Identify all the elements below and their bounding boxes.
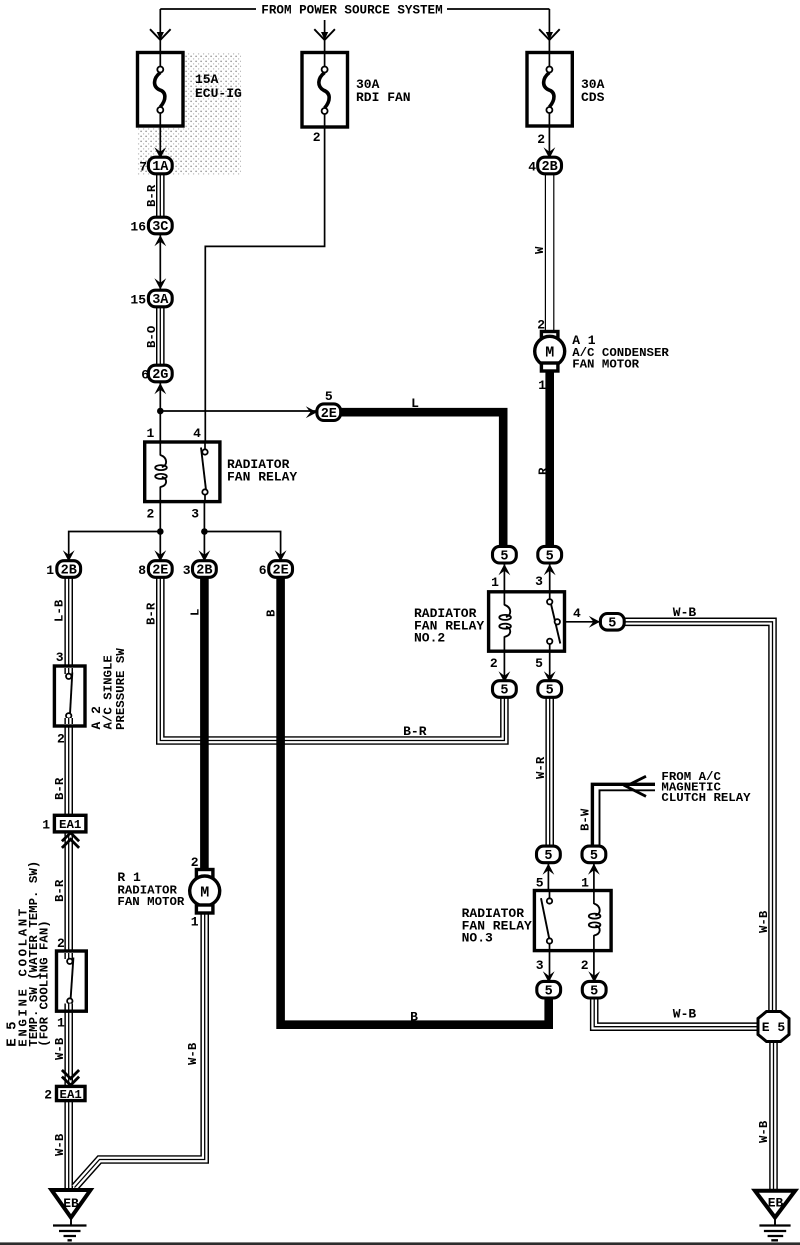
node: junction at 2G branch (157, 408, 164, 415)
wire: power source bus top (160, 8, 549, 10)
svg-text:FAN RELAY: FAN RELAY (227, 470, 297, 485)
svg-text:(FOR COOLING FAN): (FOR COOLING FAN) (38, 920, 52, 1046)
svg-text:B-R: B-R (53, 777, 67, 800)
svg-text:2E: 2E (321, 407, 337, 422)
svg-text:B-R: B-R (403, 724, 427, 739)
arrow into 2E pin6 (275, 550, 287, 561)
wire: RDI fuse to relay pin 4 (205, 127, 324, 443)
arrow into 5 oval (pin4) (589, 616, 600, 628)
svg-text:2: 2 (57, 936, 65, 951)
svg-text:8: 8 (138, 563, 146, 578)
thick wire B: 2E pin6 down and right to relay3 pin3 (281, 577, 549, 1025)
svg-text:2: 2 (191, 855, 199, 870)
wire B-R: EA1 to coolant temp switch (64, 831, 73, 953)
arrow into connector 2B pin4 (544, 147, 556, 158)
arrow into fuse 15A (150, 29, 171, 40)
svg-text:B-R: B-R (145, 184, 159, 207)
svg-text:1A: 1A (152, 160, 169, 175)
wire W-B: radiator fan motor to ground EB (75, 912, 205, 1188)
wire: drop to fuse 30A CDS (548, 9, 550, 53)
connector 2B pin 3 (193, 561, 217, 578)
wire: relay3 pins 3,2 to 5 ovals (550, 950, 594, 983)
svg-text:1: 1 (538, 378, 546, 393)
svg-text:5: 5 (325, 389, 333, 404)
wire: 5 ovals to relay2 pins 1,3 (504, 562, 549, 593)
arrows up into 5 ovals (499, 564, 511, 575)
motor R1 radiator fan (196, 870, 213, 878)
svg-text:W-R: W-R (534, 756, 548, 779)
shaded block region around ECU-IG fuse (137, 52, 241, 175)
svg-text:2: 2 (490, 656, 498, 671)
connector 5 (relay2 pin5) (538, 681, 562, 698)
connector 2B pin 1 (57, 561, 81, 578)
double chevron down into EA1 pin2 (62, 1070, 79, 1085)
svg-text:CLUTCH RELAY: CLUTCH RELAY (661, 791, 751, 805)
wire B-R: 1A to 3C (156, 173, 165, 218)
switch A2 A/C single pressure (54, 666, 85, 726)
svg-text:M: M (200, 884, 209, 901)
svg-text:ECU-IG: ECU-IG (195, 86, 242, 101)
wire: relay1 pin2 to branch node (69, 500, 161, 562)
svg-text:16: 16 (130, 220, 146, 235)
svg-text:5: 5 (546, 549, 554, 564)
wire: connector 3C to 3A (159, 234, 161, 290)
svg-text:2E: 2E (272, 564, 288, 579)
connector 5 (relay2 pin2) (493, 681, 517, 698)
relay: RADIATOR FAN RELAY (145, 442, 220, 502)
svg-text:NO.3: NO.3 (462, 931, 493, 946)
arrow up into 3C (154, 235, 166, 246)
connector EA1 pin 2 (57, 1086, 86, 1100)
svg-text:M: M (545, 345, 554, 362)
arrow up into 2G (154, 383, 166, 394)
wire B-O: 3A to 2G (156, 306, 165, 366)
wire: connector 2G to relay pin 1 (159, 382, 161, 443)
svg-text:B: B (410, 1010, 418, 1025)
arrow into 2E pin8 (154, 550, 166, 561)
svg-text:3: 3 (536, 958, 544, 973)
arrow down into 3A (154, 278, 166, 289)
node: junction relay1 pin3 (201, 528, 208, 535)
svg-text:PRESSURE SW: PRESSURE SW (114, 648, 128, 730)
svg-text:5: 5 (590, 849, 598, 864)
arrow into fuse 30A CDS (539, 29, 560, 40)
svg-text:FROM POWER SOURCE SYSTEM: FROM POWER SOURCE SYSTEM (261, 4, 442, 18)
fuse 30A CDS (527, 53, 572, 127)
svg-text:4: 4 (573, 606, 581, 621)
svg-text:15A: 15A (195, 72, 219, 87)
wire: drop to fuse 30A RDI (324, 20, 326, 53)
svg-text:1: 1 (146, 426, 154, 441)
svg-text:NO.2: NO.2 (414, 631, 445, 646)
connector 2E pin 5 (branch) (317, 404, 341, 421)
svg-text:5: 5 (500, 549, 508, 564)
svg-text:2: 2 (537, 132, 545, 147)
wire W-B: temp switch to ground EB (64, 1009, 73, 1190)
chevron arrow: from A/C magnetic clutch relay (626, 776, 646, 796)
svg-text:1: 1 (57, 1016, 65, 1031)
svg-text:3A: 3A (152, 293, 169, 308)
svg-text:5: 5 (545, 984, 553, 999)
svg-text:2: 2 (146, 507, 154, 522)
node: junction relay1 pin2 (157, 528, 164, 535)
svg-text:5: 5 (608, 616, 616, 631)
svg-text:B-O: B-O (145, 326, 159, 348)
svg-text:1: 1 (46, 563, 54, 578)
thick wire B-W: from A/C magnetic clutch relay to relay3 pin1 (592, 784, 655, 847)
connector 3A pin 15 (148, 290, 172, 307)
ground EB left (52, 1190, 91, 1218)
svg-text:6: 6 (141, 368, 149, 383)
wire W-R: relay2 pin5 to relay3 pin5 (545, 697, 554, 847)
svg-text:15: 15 (130, 293, 146, 308)
svg-text:3: 3 (183, 563, 191, 578)
wire W: 2B pin4 to condenser fan motor (545, 173, 555, 332)
wire: relay1 pin3 to branch node (204, 500, 280, 562)
svg-text:7: 7 (139, 160, 147, 175)
svg-text:W-B: W-B (757, 910, 771, 933)
svg-text:RDI FAN: RDI FAN (356, 90, 411, 105)
svg-text:W-B: W-B (53, 1037, 67, 1060)
wire L-B: 2B to pressure switch (64, 577, 73, 668)
svg-text:5: 5 (536, 876, 544, 891)
connector 5 (W-R) (537, 846, 561, 863)
svg-text:EB: EB (63, 1196, 79, 1211)
svg-text:2B: 2B (541, 160, 557, 175)
svg-text:FAN MOTOR: FAN MOTOR (572, 358, 639, 372)
svg-text:L-B: L-B (53, 599, 67, 622)
junction connector E 5 octagon (758, 1012, 789, 1042)
wire W-B: E5 octagon to ground EB right (769, 1040, 778, 1190)
svg-text:2: 2 (313, 130, 321, 145)
connector 5 (relay3 pin2) (582, 981, 606, 998)
svg-text:EA1: EA1 (60, 1088, 82, 1102)
svg-text:5: 5 (546, 684, 554, 699)
svg-text:B-W: B-W (579, 808, 593, 831)
svg-text:2B: 2B (196, 564, 212, 579)
arrow into 2B pin1 (63, 550, 75, 561)
connector 1A pin 7 (148, 157, 172, 174)
svg-text:2: 2 (581, 958, 589, 973)
connector 5 (thick R) (538, 546, 562, 563)
svg-text:W-B: W-B (53, 1133, 67, 1156)
wire: fuse1 to connector 1A (159, 126, 161, 158)
svg-text:E 5: E 5 (762, 1020, 786, 1035)
motor A1 A/C condenser fan (541, 332, 558, 340)
arrow into fuse 30A RDI (314, 29, 335, 40)
svg-text:W-B: W-B (757, 1120, 771, 1143)
thick wire L: 2E pin5 to relay2 pin1 (339, 412, 503, 548)
connector 2G pin 6 (148, 365, 172, 382)
svg-text:W-B: W-B (186, 1042, 200, 1065)
connector 2E pin 6 (269, 561, 293, 578)
arrow into connector 2E pin5 (306, 406, 317, 418)
wire B-R: 2E pin8 down, right, up to relay2 pin2 (160, 577, 504, 741)
connector 5 (thick L) (493, 546, 517, 563)
wire: relay2 pins 2,5 to 5 ovals (504, 650, 549, 682)
svg-text:W: W (533, 246, 547, 254)
svg-text:3: 3 (535, 574, 543, 589)
double chevron up into EA1 (62, 833, 79, 848)
svg-text:2: 2 (57, 732, 65, 747)
relay1 switch contacts (204, 442, 206, 449)
wire: drop to fuse 15A (159, 9, 161, 53)
connector 5 (B-W) (582, 846, 606, 863)
svg-text:W-B: W-B (673, 1007, 697, 1022)
fuse 30A RDI FAN (302, 53, 348, 128)
arrows down into 5 ovals below relay3 (543, 971, 555, 982)
relay: RADIATOR FAN RELAY NO.2 (489, 592, 565, 651)
switch E5 engine coolant temp (57, 951, 87, 1011)
connector 5 (relay3 pin3) (537, 981, 561, 998)
arrow into 2B pin3 (199, 550, 211, 561)
wire: CDS fuse to connector 2B pin4 (548, 126, 550, 158)
wire: relay2 pin4 to oval 5 (559, 621, 600, 623)
svg-text:6: 6 (259, 563, 267, 578)
svg-text:CDS: CDS (581, 90, 605, 105)
svg-text:1: 1 (581, 876, 589, 891)
svg-text:1: 1 (191, 915, 199, 930)
wire B-R: pressure switch to EA1 (64, 724, 73, 816)
svg-text:4: 4 (528, 160, 536, 175)
svg-text:5: 5 (544, 849, 552, 864)
svg-text:FAN MOTOR: FAN MOTOR (117, 895, 184, 909)
svg-text:W-B: W-B (673, 605, 697, 620)
svg-text:B-R: B-R (53, 879, 67, 902)
arrows up into 5 ovals above relay3 (543, 864, 555, 875)
svg-text:2: 2 (44, 1088, 52, 1103)
arrow into connector 1A (154, 147, 166, 158)
wire: 5 ovals to relay3 pins 5,1 (548, 862, 594, 892)
svg-text:4: 4 (193, 426, 201, 441)
svg-text:L: L (189, 609, 203, 616)
wire W-B: relay3 pin2 oval to E5 octagon (594, 997, 759, 1027)
svg-text:5: 5 (590, 984, 598, 999)
svg-text:L: L (411, 396, 419, 411)
svg-text:5: 5 (500, 684, 508, 699)
svg-text:1: 1 (42, 818, 50, 833)
svg-text:5: 5 (535, 656, 543, 671)
svg-text:2B: 2B (61, 564, 77, 579)
connector EA1 pin 1 (54, 815, 86, 832)
svg-text:3: 3 (56, 650, 64, 665)
svg-text:3C: 3C (152, 220, 168, 235)
connector 2E pin 8 (148, 561, 172, 578)
ground EB right (755, 1191, 795, 1218)
svg-text:B: B (265, 609, 279, 617)
fuse 15A ECU-IG (138, 53, 184, 127)
page bottom border (0, 1242, 800, 1245)
svg-text:2E: 2E (152, 564, 168, 579)
thick wire L: 2B pin3 to radiator fan motor (200, 577, 209, 870)
svg-text:EB: EB (768, 1196, 784, 1211)
svg-text:1: 1 (491, 575, 499, 590)
wire W-B: relay2 pin4 oval to E5 octagon (624, 622, 773, 1013)
wire: branch from node to connector 2E pin5 (160, 410, 316, 412)
relay: RADIATOR FAN RELAY NO.3 (534, 891, 611, 951)
svg-text:R: R (537, 467, 551, 475)
svg-text:3: 3 (191, 507, 199, 522)
svg-text:B-R: B-R (145, 602, 159, 625)
connector 2B pin 4 (538, 157, 562, 174)
svg-text:EA1: EA1 (59, 818, 81, 832)
connector 5 (relay2 pin4) (600, 614, 624, 631)
arrows down into 5 ovals below relay2 (499, 671, 511, 682)
svg-text:2G: 2G (152, 368, 168, 383)
thick wire R: condenser motor to relay2 pin3 (545, 370, 554, 549)
